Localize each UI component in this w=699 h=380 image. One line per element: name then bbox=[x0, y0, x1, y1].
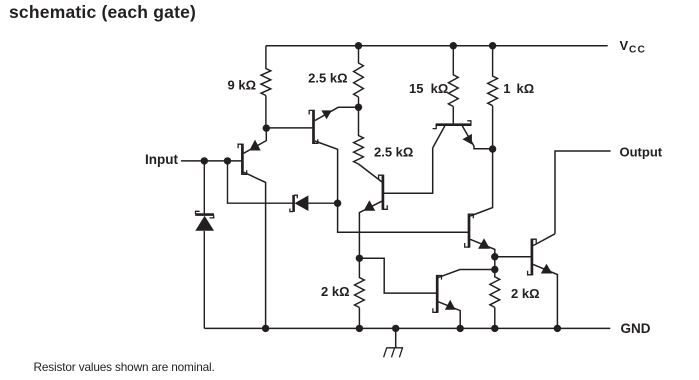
transistor Q1 emitter arrow bbox=[249, 140, 260, 151]
node 2k-left-gnd junction bbox=[356, 325, 363, 332]
ground symbol stem bbox=[395, 328, 397, 347]
GND label bbox=[621, 321, 651, 336]
svg-text:2 kΩ: 2 kΩ bbox=[321, 284, 350, 299]
diode D1 wire bbox=[203, 161, 205, 329]
node Vcc-15k junction bbox=[450, 42, 457, 49]
footnote bbox=[34, 360, 215, 374]
node 2k-right-gnd junction bbox=[491, 325, 498, 332]
node gnd-symbol junction bbox=[392, 325, 399, 332]
Vcc label bbox=[620, 38, 646, 55]
Output label bbox=[620, 145, 663, 160]
transistor Q2 base bar bbox=[309, 110, 318, 144]
transistor Q3 base wire bbox=[383, 148, 433, 193]
svg-text:Input: Input bbox=[145, 152, 178, 167]
transistor Q1 base bar bbox=[238, 144, 247, 175]
title bbox=[9, 2, 196, 22]
transistor Q7 emitter bbox=[533, 264, 557, 328]
label 2k right bbox=[511, 286, 540, 301]
transistor Q6 base bar bbox=[433, 275, 442, 313]
wire D2-node to Q5 base bbox=[338, 203, 468, 232]
transistor Q5 emitter arrow bbox=[478, 238, 490, 249]
svg-text:2.5 kΩ: 2.5 kΩ bbox=[308, 70, 347, 85]
node 2k-right junction B bbox=[491, 266, 498, 273]
resistor 15k bbox=[448, 46, 458, 124]
node Q4-emitter junction bbox=[489, 145, 496, 152]
svg-text:Output: Output bbox=[620, 145, 663, 160]
svg-text:2 kΩ: 2 kΩ bbox=[511, 286, 540, 301]
transistor Q4 emitter bbox=[462, 126, 492, 149]
resistor 9k bbox=[261, 46, 271, 128]
diode D1 cathode bar bbox=[195, 211, 214, 218]
label 2.5k upper bbox=[308, 70, 347, 85]
label 2.5k lower bbox=[374, 144, 413, 159]
label 1k bbox=[503, 81, 534, 96]
transistor Q7 base wire bbox=[495, 256, 531, 258]
transistor Q7 emitter arrow bbox=[541, 264, 552, 274]
resistor 2.5k upper bbox=[354, 46, 364, 108]
ground rail bbox=[204, 327, 610, 329]
transistor Q4 base bar bbox=[433, 121, 472, 129]
transistor Q1 collector bbox=[244, 172, 266, 328]
node input-clamp junction bbox=[224, 157, 231, 164]
node Q2-emitter junction bbox=[355, 104, 362, 111]
label 9k bbox=[228, 77, 257, 92]
label 15k bbox=[409, 81, 448, 96]
wire node A to node B bbox=[494, 257, 496, 270]
transistor Q5 collector bbox=[470, 149, 492, 216]
transistor Q1 emitter bbox=[244, 128, 267, 153]
transistor Q7 base bar bbox=[528, 239, 537, 276]
resistor 2k right bbox=[490, 270, 500, 329]
svg-text:CC: CC bbox=[629, 45, 646, 56]
output wire bbox=[555, 151, 611, 234]
transistor Q3 base bar bbox=[379, 175, 388, 210]
resistor 2.5k lower bbox=[354, 107, 364, 164]
input wire bbox=[181, 160, 241, 162]
transistor Q3 emitter bbox=[359, 201, 381, 258]
transistor Q5 emitter bbox=[470, 239, 495, 256]
svg-text:1: 1 bbox=[503, 81, 510, 96]
transistor Q4 emitter arrow bbox=[462, 134, 472, 145]
node Vcc-1k junction bbox=[489, 42, 496, 49]
transistor Q6 emitter bbox=[438, 302, 460, 329]
diode D2 triangle bbox=[295, 195, 309, 211]
node Q7-emitter-gnd junction bbox=[554, 325, 561, 332]
node Q6-emitter-gnd junction bbox=[457, 325, 464, 332]
node Q1-collector-gnd junction bbox=[262, 325, 269, 332]
resistor 1k bbox=[488, 46, 498, 149]
transistor Q5 base bar bbox=[465, 214, 474, 248]
node Q5-emitter junction A bbox=[491, 253, 498, 260]
label 2k left bbox=[321, 284, 350, 299]
transistor Q3 emitter arrow bbox=[364, 200, 376, 211]
svg-text:schematic (each gate): schematic (each gate) bbox=[9, 2, 196, 22]
transistor Q7 collector bbox=[533, 234, 555, 246]
diode D2 cathode bar bbox=[290, 195, 297, 212]
transistor Q6 collector bbox=[438, 270, 494, 278]
node Vcc-2.5k junction bbox=[355, 42, 362, 49]
ground symbol bbox=[384, 348, 404, 358]
svg-text:V: V bbox=[620, 38, 629, 53]
Input label bbox=[145, 152, 178, 167]
wire Q1-emitter to Q2-base bbox=[266, 127, 312, 129]
transistor Q3 collector bbox=[359, 164, 383, 182]
svg-text:2.5 kΩ: 2.5 kΩ bbox=[374, 144, 413, 159]
node Q2-collector-D2 junction bbox=[334, 200, 341, 207]
node input-diode junction bbox=[201, 157, 208, 164]
transistor Q6 base wire bbox=[359, 258, 436, 293]
svg-text:9 kΩ: 9 kΩ bbox=[228, 77, 257, 92]
transistor Q2 emitter bbox=[315, 107, 359, 120]
svg-text:kΩ: kΩ bbox=[431, 81, 449, 96]
transistor Q6 emitter arrow bbox=[445, 300, 456, 310]
svg-text:kΩ: kΩ bbox=[517, 81, 535, 96]
node Q1-emitter junction bbox=[263, 124, 270, 131]
transistor Q4 base wire bbox=[452, 123, 454, 126]
transistor Q2 collector bbox=[315, 141, 338, 203]
diode D2 wire bbox=[228, 161, 338, 203]
transistor Q4 collector bbox=[433, 126, 445, 148]
resistor 2k left bbox=[355, 258, 365, 328]
node Q3-emitter-2k junction bbox=[356, 255, 363, 262]
svg-text:Resistor values shown are nomi: Resistor values shown are nominal. bbox=[34, 360, 215, 374]
svg-text:GND: GND bbox=[621, 321, 651, 336]
svg-text:15: 15 bbox=[409, 81, 423, 96]
transistor Q2 emitter arrow bbox=[321, 110, 331, 119]
diode D1 triangle bbox=[195, 216, 214, 231]
Vcc rail bbox=[266, 45, 608, 47]
